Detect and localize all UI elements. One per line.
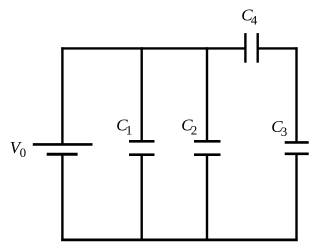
- wire: left vertical upper segment (top rail to V0 + plate): [61, 47, 63, 144]
- label C4: [241, 5, 257, 27]
- wire: top rail right segment (C4 right plate to top-right corner): [258, 47, 298, 49]
- capacitor C4: [245, 33, 257, 63]
- wire: C1 branch upper segment: [140, 47, 142, 141]
- battery V0: [33, 144, 93, 154]
- svg-text:0: 0: [20, 145, 27, 160]
- wire: bottom rail: [61, 238, 298, 241]
- wire: C2 branch lower segment: [206, 155, 208, 241]
- label V0: [10, 138, 26, 160]
- capacitor C2: [194, 141, 221, 154]
- wire: left vertical lower segment (V0 - plate to bottom rail): [61, 154, 63, 241]
- wire: C1 branch lower segment: [140, 155, 142, 241]
- svg-text:2: 2: [191, 123, 198, 138]
- capacitor C3: [285, 142, 309, 153]
- wire: C2 branch upper segment: [206, 47, 208, 141]
- svg-text:3: 3: [281, 124, 288, 139]
- svg-text:1: 1: [126, 123, 133, 138]
- label C3: [271, 117, 287, 139]
- wire: right vertical lower segment (C3 bottom plate to bottom rail): [295, 154, 297, 241]
- wire: top rail left segment (node A to C4 left plate): [61, 47, 245, 49]
- svg-text:4: 4: [251, 13, 258, 28]
- capacitor C1: [129, 141, 155, 154]
- label C1: [116, 115, 132, 137]
- wire: right vertical upper segment (top-right corner to C3 top plate): [295, 47, 297, 142]
- label C2: [181, 115, 197, 137]
